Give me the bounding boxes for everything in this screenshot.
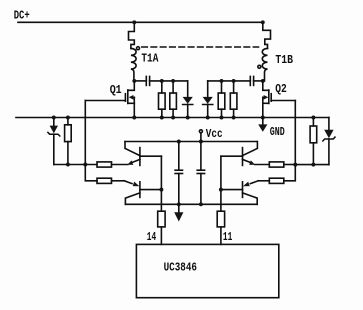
transistor Q2 MOSFET — [263, 81, 296, 118]
junction dot right base join — [219, 188, 223, 192]
svg-text:11: 11 — [223, 231, 232, 244]
ground GND symbol — [258, 118, 267, 132]
wire Q1 gate drop — [84, 101, 86, 165]
diode snubber right D2 — [203, 81, 251, 118]
wire right base bus — [220, 156, 222, 211]
svg-text:GND: GND — [270, 126, 285, 139]
resistor gate drive left R6 — [97, 162, 128, 167]
capacitor bypass C1 — [175, 142, 182, 205]
resistor snubber left R2 — [170, 81, 177, 118]
resistor snubber left R1 — [159, 81, 166, 118]
junction dot left gate node — [83, 163, 87, 167]
junction dot R2 top — [171, 79, 175, 83]
junction dot R12 top — [311, 116, 315, 120]
wire transformer coupling dashed — [142, 46, 259, 48]
junction dot R1 bottom — [160, 116, 164, 120]
junction dot R4 bottom — [232, 116, 236, 120]
junction dot C2 bottom — [199, 202, 203, 206]
resistor base right R9 — [217, 211, 224, 244]
capacitor bypass C2 — [197, 142, 204, 205]
junction dot snubber right node B — [261, 79, 265, 83]
inductor T1B — [262, 48, 267, 81]
junction dot R4 top — [232, 79, 236, 83]
resistor snubber right R3 — [218, 81, 225, 118]
junction dot D1 bottom — [186, 116, 190, 120]
wire Vcc line — [125, 141, 257, 143]
junction dot C1 top — [177, 140, 181, 144]
junction dot left base join — [159, 188, 163, 192]
resistor gate drive left R7 — [97, 178, 124, 183]
resistor base left R8 — [158, 211, 165, 244]
wire left gate node — [54, 164, 97, 166]
svg-text:14: 14 — [147, 231, 156, 244]
svg-text:T1A: T1A — [141, 52, 158, 65]
junction dot right gate node — [293, 163, 297, 167]
diode snubber left D1 — [183, 81, 193, 118]
wire center ground line — [125, 203, 257, 205]
capacitor snubber right — [250, 76, 262, 85]
resistor snubber right R4 — [230, 81, 237, 118]
ground center arrow — [174, 204, 183, 221]
node T1B polarity dot — [258, 65, 261, 68]
junction dot C2 top — [199, 140, 203, 144]
wire T1B feed stair — [263, 22, 271, 48]
resistor gate drive right R11 — [258, 165, 295, 184]
junction dot R1 top — [160, 79, 164, 83]
svg-text:UC3846: UC3846 — [164, 261, 197, 274]
wire left gate node drop — [85, 165, 97, 181]
IC U1 UC3846 box — [136, 244, 278, 297]
inductor T1A — [131, 48, 136, 81]
node Vcc terminal — [199, 130, 202, 142]
junction dot C1 bottom — [177, 202, 181, 206]
junction dot R5 bottom — [66, 163, 70, 167]
resistor gate-pulldown left R5 — [65, 118, 72, 165]
wire left base bus — [160, 156, 162, 211]
junction dot D2 bottom — [206, 116, 210, 120]
svg-text:T1B: T1B — [275, 54, 293, 67]
svg-text:Q1: Q1 — [110, 84, 122, 97]
transistor NPN left upper — [125, 142, 161, 166]
resistor gate-pulldown right R12 — [310, 118, 317, 165]
svg-text:Vcc: Vcc — [206, 128, 223, 141]
wire T1A feed stair — [129, 22, 135, 48]
junction dot R5 top — [66, 116, 70, 120]
junction dot R3 top — [220, 79, 224, 83]
transistor Q1 MOSFET — [85, 81, 134, 118]
junction dot R2 bottom — [171, 116, 175, 120]
resistor gate drive right R10 — [255, 162, 295, 167]
node T1A polarity dot — [137, 47, 140, 50]
diode zener left ZD1 — [48, 118, 60, 165]
junction dot Q1 source on rail — [132, 116, 136, 120]
junction dot DC+/T1B — [261, 20, 265, 24]
wire right gate node — [295, 164, 329, 166]
junction dot ZD1 top — [52, 116, 56, 120]
transistor NPN right upper — [221, 142, 258, 166]
transistor PNP left lower — [124, 181, 161, 205]
junction dot DC+/T1A — [132, 20, 136, 24]
junction dot Q2 source on rail — [261, 116, 265, 120]
wire DC+ rail — [18, 21, 263, 23]
junction dot snubber left node A — [132, 79, 136, 83]
svg-text:DC+: DC+ — [14, 10, 30, 23]
diode zener right ZD2 — [323, 118, 335, 165]
wire Q2 gate drop — [294, 101, 296, 165]
svg-text:Q2: Q2 — [275, 83, 287, 96]
transistor PNP right lower — [221, 181, 258, 205]
wire main mid rail — [16, 117, 329, 119]
junction dot R3 bottom — [220, 116, 224, 120]
capacitor snubber left — [134, 76, 187, 85]
junction dot R12 bottom — [311, 163, 315, 167]
